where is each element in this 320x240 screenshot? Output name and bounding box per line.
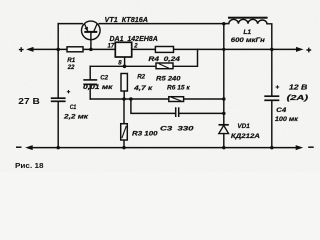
wire C4 column upper xyxy=(271,49,273,95)
diode VD1 triangle (anode below, pointing up) xyxy=(219,125,229,133)
svg-text:4,7 к: 4,7 к xyxy=(133,85,153,92)
node junction VD1 bottom xyxy=(222,146,226,150)
svg-text:100 мк: 100 мк xyxy=(275,116,299,123)
svg-text:С3 330: С3 330 xyxy=(160,126,194,133)
node junction output wire / VD1 column xyxy=(222,48,225,51)
node junction pin8/C2/R5/R2 xyxy=(123,64,127,68)
svg-text:27 В: 27 В xyxy=(18,97,40,106)
svg-text:0,01 мк: 0,01 мк xyxy=(83,84,114,91)
resistor R6 15k with power slash xyxy=(169,97,184,102)
svg-text:12 В: 12 В xyxy=(289,82,308,91)
svg-text:R3 100: R3 100 xyxy=(132,130,158,137)
node junction base xyxy=(89,48,93,52)
svg-text:R5 240: R5 240 xyxy=(156,75,181,82)
svg-text:R6 15 к: R6 15 к xyxy=(167,84,190,91)
svg-text:2,2 мк: 2,2 мк xyxy=(63,113,89,120)
capacitor C2 0.01uF plates xyxy=(83,79,97,81)
node junction output node L1/C4 xyxy=(270,48,274,52)
wire top rail left segment (emitter side) xyxy=(58,23,82,25)
transistor VT1 circle xyxy=(82,21,101,40)
input plus terminal arrow xyxy=(26,47,34,52)
wire DA1 pin8 lead xyxy=(124,57,126,66)
svg-text:С1: С1 xyxy=(70,104,77,111)
inductor L1 600uH core bar xyxy=(228,17,268,19)
svg-text:VD1: VD1 xyxy=(237,123,250,130)
node junction input x58 xyxy=(56,48,60,52)
wire left input column x=58 upper xyxy=(57,24,59,99)
capacitor C4 plus sign xyxy=(276,85,280,89)
input minus terminal arrow xyxy=(25,145,33,150)
wire input plus lead xyxy=(32,48,68,50)
wire R3 bottom lead xyxy=(123,140,125,148)
svg-text:VT1 КТ816А: VT1 КТ816А xyxy=(105,17,149,24)
svg-text:(2А): (2А) xyxy=(287,93,309,102)
transistor VT1 emitter diagonal (left, with PNP arrow) xyxy=(85,24,88,31)
svg-text:КД212А: КД212А xyxy=(231,133,260,140)
node junction C3 wire end on VD1 column xyxy=(222,112,226,116)
svg-text:Рис. 18: Рис. 18 xyxy=(15,161,44,170)
node junction top rail / VD1 column xyxy=(222,22,226,26)
wire L1 right end corner down to output node xyxy=(267,24,272,50)
capacitor C4 100uF plates xyxy=(264,95,279,97)
node junction R3 bottom xyxy=(122,146,126,150)
wire VD1 column lower xyxy=(223,134,225,148)
svg-text:17: 17 xyxy=(108,43,115,49)
output plus terminal arrow xyxy=(296,47,304,52)
input plus sign xyxy=(19,47,24,52)
wire feedback rail y=99 left part xyxy=(90,98,169,100)
svg-text:600 мкГн: 600 мкГн xyxy=(231,37,265,44)
wire left input column x=58 lower xyxy=(57,101,59,147)
svg-text:C2: C2 xyxy=(100,75,108,82)
resistor R2 4.7k (vertical) xyxy=(121,74,127,92)
wire C2 bottom lead xyxy=(89,85,91,99)
wire C2 top lead xyxy=(89,66,91,79)
wire feedback rail y=99 right part to diode column xyxy=(184,98,224,100)
resistor R3 100 (vertical, with slash) xyxy=(121,124,128,140)
wire R3 top lead xyxy=(123,99,125,124)
svg-text:R2: R2 xyxy=(137,74,145,81)
diode VD1 KD212A cathode bar xyxy=(219,124,229,126)
svg-text:DA1 142ЕН8А: DA1 142ЕН8А xyxy=(110,36,158,43)
capacitor C1 plus sign xyxy=(67,90,70,93)
node junction R2-R3 xyxy=(122,97,126,101)
node junction C4 bottom xyxy=(270,146,274,150)
wire bottom rail xyxy=(32,147,299,149)
node junction C1 bottom xyxy=(56,146,60,150)
svg-text:L1: L1 xyxy=(243,29,251,36)
transistor VT1 base bar xyxy=(84,31,97,33)
capacitor C3 330 plates xyxy=(175,107,177,117)
resistor R5 240 with power slash xyxy=(156,63,173,69)
capacitor C1 2.2uF plates xyxy=(51,97,66,99)
wire R4 to output arrow xyxy=(174,48,299,50)
output plus sign xyxy=(306,48,311,53)
wire mid rail y=66 C2 to R5 xyxy=(90,65,156,67)
wire VT1 base lead xyxy=(90,32,92,49)
input minus sign xyxy=(16,146,22,148)
resistor R1 22 xyxy=(67,47,83,52)
wire C3 branch down and left plate lead xyxy=(131,99,176,113)
wire C4 column lower xyxy=(271,101,273,148)
wire top rail right segment (collector to L1) xyxy=(99,23,229,25)
output minus terminal arrow xyxy=(296,145,304,150)
wire R2 bottom lead xyxy=(123,91,125,99)
wire C3 right lead to diode column xyxy=(179,112,224,114)
wire VD1 column upper xyxy=(223,24,225,125)
node junction C3 branch xyxy=(129,97,133,101)
transistor VT1 collector diagonal (right) xyxy=(94,24,97,31)
wire R5 right to riser up to output wire xyxy=(173,49,198,66)
wire R1 to base to DA1 pin17 xyxy=(83,48,115,50)
svg-text:C4: C4 xyxy=(276,107,287,114)
wire DA1 pin2 to R4 xyxy=(132,48,156,50)
svg-text:2: 2 xyxy=(133,44,138,50)
inductor L1 coil arcs xyxy=(229,19,267,23)
op-amp regulator DA1 142EN8A box xyxy=(115,42,131,57)
svg-text:22: 22 xyxy=(67,64,75,71)
node junction R6 end on VD1 column xyxy=(222,97,226,101)
resistor R4 0.24 xyxy=(155,47,173,53)
svg-text:R4 0,24: R4 0,24 xyxy=(148,56,180,63)
output minus sign xyxy=(308,146,314,148)
